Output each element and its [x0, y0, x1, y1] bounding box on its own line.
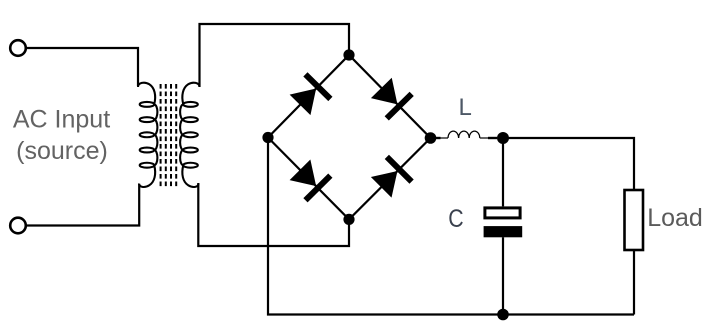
wire secondary bottom to bridge: [198, 183, 349, 246]
node left: [262, 132, 273, 143]
wire capacitor bottom: [502, 237, 504, 314]
diode D1 upper-left: [288, 72, 333, 117]
svg-text:L: L: [459, 94, 472, 121]
transformer core: [161, 84, 177, 188]
capacitor C bottom plate: [484, 226, 523, 237]
svg-text:Load: Load: [647, 204, 703, 232]
transformer primary winding: [138, 83, 157, 187]
svg-text:AC Input: AC Input: [13, 106, 110, 134]
wire to load top: [503, 138, 634, 190]
diode D4 lower-right: [369, 155, 414, 200]
svg-text:(source): (source): [16, 137, 108, 165]
wire primary top: [26, 48, 138, 86]
transformer secondary winding: [180, 83, 199, 187]
bridge diamond wires: [268, 55, 431, 219]
inductor L lead right: [488, 137, 497, 139]
terminal bottom-left: [10, 218, 26, 234]
terminal top-left: [10, 40, 26, 56]
node top: [343, 49, 354, 60]
svg-text:C: C: [448, 205, 463, 233]
inductor L: [441, 131, 489, 138]
wire bottom rail: [268, 138, 634, 315]
node bottom: [343, 214, 354, 225]
wire load bottom: [633, 250, 635, 315]
wire secondary top to bridge: [200, 24, 350, 87]
wire primary bottom: [26, 184, 140, 226]
node right: [425, 132, 437, 144]
load resistor: [625, 190, 644, 250]
node bottom rail junction: [497, 309, 509, 321]
wire capacitor top: [502, 138, 504, 206]
diode D2 upper-right: [369, 76, 414, 121]
diode D3 lower-left: [288, 157, 333, 202]
node filter junction: [497, 132, 509, 144]
inductor L lead left: [431, 137, 441, 139]
capacitor C top plate: [485, 208, 520, 218]
